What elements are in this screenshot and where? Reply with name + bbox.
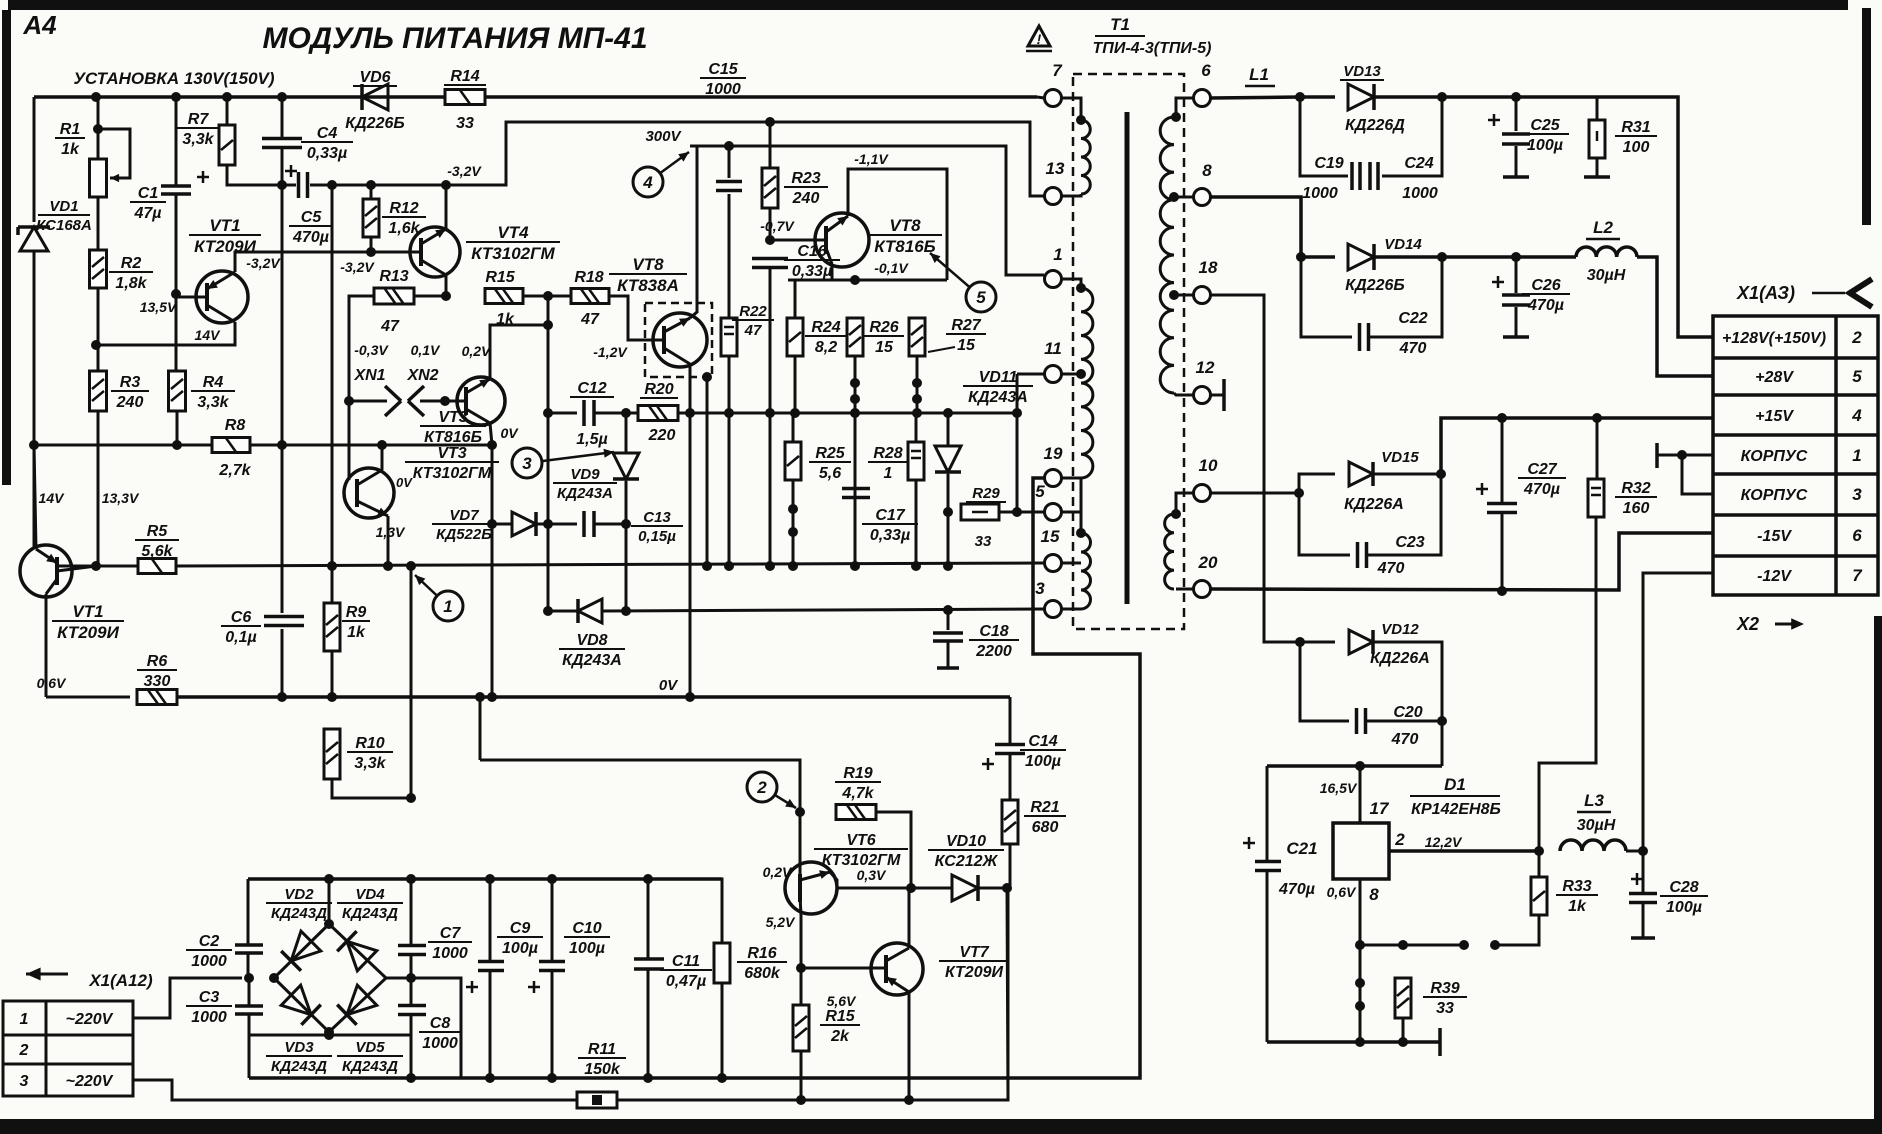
wire C4 to C5 row xyxy=(281,147,284,185)
wire C3 to bottom row xyxy=(248,1014,251,1035)
wire node row 945 xyxy=(1360,944,1464,947)
svg-text:3,3k: 3,3k xyxy=(354,755,386,772)
wire L2 to +28V xyxy=(1637,257,1713,376)
svg-text:15: 15 xyxy=(875,339,894,356)
svg-text:R9: R9 xyxy=(346,604,367,621)
svg-text:X1(АЗ): X1(АЗ) xyxy=(1736,283,1795,303)
svg-text:13,5V: 13,5V xyxy=(140,299,178,315)
junction VT3 emitter / 0V rail xyxy=(487,692,497,702)
junction 0V rail / VT8 emitter xyxy=(685,692,695,702)
wire node 1 column xyxy=(410,566,413,798)
svg-text:1,3V: 1,3V xyxy=(376,524,406,540)
wire R16 column xyxy=(648,879,722,944)
wire pin12 to winding xyxy=(1174,393,1193,395)
svg-text:КД243Д: КД243Д xyxy=(342,905,398,922)
junction VD15 / C23 xyxy=(1436,469,1446,479)
label C25 xyxy=(1521,117,1569,154)
test point circle 4 xyxy=(633,152,689,197)
svg-text:VD3: VD3 xyxy=(284,1039,314,1056)
capacitor C27 xyxy=(1487,504,1517,513)
svg-text:1: 1 xyxy=(1053,245,1062,264)
capacitor C3 xyxy=(235,1006,263,1014)
label R11 xyxy=(578,1041,626,1078)
svg-text:2: 2 xyxy=(1851,328,1862,347)
svg-text:R7: R7 xyxy=(188,111,210,128)
junction R16 / row A xyxy=(717,1073,727,1083)
wire R15-R18 xyxy=(523,295,571,298)
wire bridge top row xyxy=(248,877,722,881)
pointer line R27 xyxy=(928,347,955,352)
svg-text:0V: 0V xyxy=(396,475,413,490)
wire node2 rail xyxy=(480,760,800,812)
wire R31 bottom xyxy=(1596,158,1599,177)
svg-text:C7: C7 xyxy=(440,925,462,942)
mains arrow X1(A12) xyxy=(26,973,68,976)
svg-text:VD12: VD12 xyxy=(1381,621,1419,638)
junction C13 / VD9 column xyxy=(621,519,631,529)
label R16 xyxy=(737,945,787,982)
svg-text:C18: C18 xyxy=(979,623,1008,640)
wire C2C3 column to row A xyxy=(248,1035,251,1078)
wire L3 to -12V riser xyxy=(1626,573,1713,851)
capacitor C1 xyxy=(161,186,191,194)
wire node2 from 0V rail xyxy=(479,697,482,760)
resistor R25 xyxy=(785,442,801,480)
fuse link R11 row xyxy=(577,1092,617,1108)
svg-text:VD15: VD15 xyxy=(1381,449,1419,466)
capacitor C20 xyxy=(1357,708,1366,734)
wire C2 to mid row xyxy=(247,953,250,978)
svg-text:D1: D1 xyxy=(1444,775,1466,794)
svg-text:X2: X2 xyxy=(1736,614,1759,634)
junction C8 / row A xyxy=(406,1073,416,1083)
transformer winding 1-19 xyxy=(1081,288,1093,478)
junction pin2 row / R33 xyxy=(1534,846,1544,856)
wire mid row right xyxy=(386,978,461,1078)
label C7 xyxy=(428,925,472,962)
wire R33 top xyxy=(1538,851,1541,877)
wire C16 bottom xyxy=(769,267,772,413)
plus sign C5 xyxy=(285,170,297,173)
wire row B right xyxy=(616,888,1008,1100)
wire C15 to R22 xyxy=(728,194,731,319)
svg-text:C6: C6 xyxy=(231,609,252,626)
wire +15V rail xyxy=(1441,418,1713,474)
capacitor C4 xyxy=(262,139,302,148)
svg-text:R4: R4 xyxy=(203,374,224,391)
label C3 xyxy=(186,989,232,1026)
label VT3 КТ3102ГМ xyxy=(405,445,499,482)
label VT4 xyxy=(466,223,560,263)
wire 300V line xyxy=(690,146,1044,275)
resistor R15 (2k) xyxy=(793,1005,809,1051)
svg-text:КД226Д: КД226Д xyxy=(1345,117,1405,134)
resistor R20 xyxy=(638,406,678,421)
svg-text:18: 18 xyxy=(1199,258,1218,277)
svg-text:VD6: VD6 xyxy=(359,69,390,86)
wire C15 column top xyxy=(728,146,731,178)
wire R19 to VT6 collector row xyxy=(876,812,911,888)
wire left column to VT1 lower xyxy=(33,445,36,549)
wire R12 top xyxy=(370,185,373,199)
test point circle 3 xyxy=(512,448,614,478)
svg-text:КТ3102ГМ: КТ3102ГМ xyxy=(413,465,492,482)
capacitor C21 xyxy=(1255,862,1281,871)
diode VD13 xyxy=(1348,84,1374,110)
wire C17 column xyxy=(854,413,857,566)
junction node / D1 pin17 xyxy=(1355,761,1365,771)
svg-text:VT8: VT8 xyxy=(632,255,664,274)
label R7 xyxy=(176,111,220,148)
svg-text:0,6V: 0,6V xyxy=(37,675,67,691)
svg-text:3: 3 xyxy=(1852,485,1862,504)
wire C26 bottom xyxy=(1515,307,1518,337)
junction mid row / C7C8 xyxy=(406,973,416,983)
winding tap dot 18 xyxy=(1169,290,1179,300)
wire C1 column xyxy=(175,97,178,186)
wire VT6 emitter xyxy=(800,915,803,1005)
svg-text:C5: C5 xyxy=(301,209,323,226)
svg-text:X1(A12): X1(A12) xyxy=(88,971,153,990)
wire C2C3 column top xyxy=(247,879,250,945)
transformer pin 19 xyxy=(1044,444,1063,487)
svg-text:C9: C9 xyxy=(510,920,531,937)
label R1 xyxy=(55,121,85,158)
svg-text:УСТАНОВКА 130V(150V): УСТАНОВКА 130V(150V) xyxy=(73,69,274,88)
svg-text:КОРПУС: КОРПУС xyxy=(1741,448,1808,465)
wire R3 to base rail xyxy=(97,411,100,566)
svg-text:1000: 1000 xyxy=(1402,185,1438,202)
dot a on pin8 column xyxy=(1355,978,1365,988)
junction ground row / pin8 col xyxy=(1355,1037,1365,1047)
junction node 2 xyxy=(795,807,805,817)
svg-text:~220V: ~220V xyxy=(66,1011,114,1028)
svg-text:-0,7V: -0,7V xyxy=(760,218,795,234)
svg-text:VD11: VD11 xyxy=(979,369,1018,386)
transformer pin 10 xyxy=(1194,456,1218,502)
svg-text:1: 1 xyxy=(20,1011,29,1028)
wire pin18 output xyxy=(1211,295,1300,642)
svg-text:470µ: 470µ xyxy=(1527,297,1564,314)
junction VD11 / R29 row xyxy=(943,507,953,517)
wire pin1 to winding xyxy=(1061,279,1081,288)
svg-text:VD8: VD8 xyxy=(576,632,607,649)
wire R22 bottom xyxy=(728,356,731,566)
wire +16,5V node row xyxy=(1267,764,1442,768)
svg-text:КТ209И: КТ209И xyxy=(945,964,1004,981)
resistor R21 xyxy=(1002,800,1018,844)
svg-text:100: 100 xyxy=(1623,139,1650,156)
diode VD6 xyxy=(362,84,388,110)
svg-text:10: 10 xyxy=(1199,456,1218,475)
junction base rail / VT8 emitter2 xyxy=(702,561,712,571)
wire VT6 collector row 0,3V xyxy=(830,872,911,888)
svg-text:C13: C13 xyxy=(643,509,671,526)
svg-text:R24: R24 xyxy=(811,319,840,336)
junction near dashed box xyxy=(702,372,712,382)
svg-text:R21: R21 xyxy=(1030,799,1059,816)
wire VT8 collector xyxy=(690,146,697,318)
svg-text:4: 4 xyxy=(1851,406,1862,425)
svg-text:R11: R11 xyxy=(588,1041,616,1058)
wire pin19 to winding xyxy=(1061,477,1081,480)
junction base rail / C17 xyxy=(850,561,860,571)
svg-text:47: 47 xyxy=(580,311,600,328)
wire C10 bottom xyxy=(551,971,554,1078)
junction +15V / R32 xyxy=(1592,413,1602,423)
resistor R3 xyxy=(90,371,107,411)
wire 0V rail xyxy=(46,696,130,699)
svg-text:R14: R14 xyxy=(450,68,479,85)
svg-text:470: 470 xyxy=(1399,340,1427,357)
wire VD15 anode up xyxy=(1299,474,1335,493)
svg-text:C20: C20 xyxy=(1393,704,1422,721)
svg-text:17: 17 xyxy=(1370,799,1390,818)
svg-text:1,5µ: 1,5µ xyxy=(576,431,607,448)
transistor VT3 КТ3102ГМ (lower) xyxy=(344,468,394,518)
connector X1(A3) table xyxy=(1713,316,1878,595)
diode VD8 xyxy=(578,599,602,623)
winding start dot 7 xyxy=(1076,115,1086,125)
svg-text:1k: 1k xyxy=(347,624,366,641)
junction R20 row / VD11 xyxy=(943,408,953,418)
svg-text:1000: 1000 xyxy=(422,1035,458,1052)
resistor R1 (trimmer) xyxy=(90,159,107,197)
wire C9 bottom xyxy=(489,971,492,1078)
wire pin11 stub xyxy=(1017,373,1044,376)
wire VD7 row xyxy=(492,523,512,526)
svg-text:1: 1 xyxy=(1852,446,1861,465)
resistor R15 xyxy=(485,289,523,304)
svg-text:VD7: VD7 xyxy=(449,507,479,524)
svg-text:R28: R28 xyxy=(873,445,902,462)
wire VT7 base row xyxy=(801,967,886,970)
wire bridge edge VD5 xyxy=(329,978,386,1032)
svg-text:-1,2V: -1,2V xyxy=(593,344,628,360)
wire C23 right xyxy=(1368,474,1441,555)
svg-text:3,3k: 3,3k xyxy=(182,131,214,148)
wire VT8-816 emitter xyxy=(831,264,834,280)
label R19 xyxy=(835,765,881,802)
svg-text:12,2V: 12,2V xyxy=(1425,834,1463,850)
svg-text:T1: T1 xyxy=(1110,15,1130,34)
resistor R19 xyxy=(836,805,876,820)
junction R29 right / pin11 branch xyxy=(1012,507,1022,517)
wire R1 column top xyxy=(97,97,100,160)
wire link to R33 xyxy=(1495,915,1539,945)
resistor R22 xyxy=(721,318,737,356)
svg-text:VD10: VD10 xyxy=(946,833,986,850)
wire pin15 tap xyxy=(1061,562,1081,565)
test point circle 2 xyxy=(747,772,796,808)
label VD9 xyxy=(553,466,617,502)
svg-text:C23: C23 xyxy=(1395,534,1424,551)
wire C12-R20 xyxy=(594,412,638,415)
svg-text:R13: R13 xyxy=(379,268,408,285)
svg-text:VT7: VT7 xyxy=(959,944,989,961)
svg-text:R39: R39 xyxy=(1430,980,1459,997)
svg-text:30µH: 30µH xyxy=(1587,267,1626,284)
junction top row / C11 xyxy=(643,874,653,884)
resistor R24 xyxy=(787,318,803,356)
wire VD13 cathode rail xyxy=(1374,97,1713,337)
svg-text:-0,1V: -0,1V xyxy=(874,260,909,276)
junction VD13 anode / C19 xyxy=(1295,92,1305,102)
svg-text:5,6k: 5,6k xyxy=(141,543,173,560)
capacitor C13 xyxy=(584,511,594,537)
svg-text:ТПИ-4-3(ТПИ-5): ТПИ-4-3(ТПИ-5) xyxy=(1093,40,1212,57)
resistor R26 xyxy=(847,318,863,356)
svg-text:470µ: 470µ xyxy=(1278,881,1315,898)
svg-text:L3: L3 xyxy=(1584,791,1604,810)
bridge diode VD5 xyxy=(337,985,377,1025)
label C8 xyxy=(419,1015,461,1052)
junction VD12 / C20 right xyxy=(1437,716,1447,726)
junction base rail / R3 xyxy=(91,561,101,571)
wire VT8 emitter xyxy=(689,364,692,697)
svg-text:680: 680 xyxy=(1032,819,1059,836)
wire pin11 branch xyxy=(1016,374,1019,512)
svg-text:КД243А: КД243А xyxy=(562,652,622,669)
junction VD14 / C22 right xyxy=(1437,252,1447,262)
svg-text:R26: R26 xyxy=(869,319,898,336)
transformer pin 18 xyxy=(1194,258,1218,304)
svg-text:470µ: 470µ xyxy=(292,229,329,246)
wire bridge edge VD2 xyxy=(274,924,329,978)
resistor R29 xyxy=(961,504,999,520)
junction VT6 emitter / VT7 base xyxy=(796,963,806,973)
wire C16 column to base rail xyxy=(769,413,772,566)
label C15 xyxy=(700,61,746,98)
transistor VT6 КТ3102ГМ xyxy=(785,862,837,915)
svg-text:3: 3 xyxy=(20,1073,29,1090)
svg-text:300V: 300V xyxy=(645,128,682,145)
label VD5 xyxy=(337,1039,403,1075)
label C1 xyxy=(130,185,166,222)
wire pin20 to winding xyxy=(1176,588,1193,591)
svg-text:VT8: VT8 xyxy=(889,216,921,235)
svg-text:C25: C25 xyxy=(1530,117,1560,134)
label R27 xyxy=(946,317,986,354)
wire bridge bottom row xyxy=(249,1034,411,1037)
plus sign C27 xyxy=(1476,488,1488,491)
svg-text:33: 33 xyxy=(975,533,992,550)
svg-text:5,6: 5,6 xyxy=(819,465,841,482)
wire C21 column xyxy=(1266,766,1269,861)
svg-text:14V: 14V xyxy=(195,327,222,343)
svg-text:VT3: VT3 xyxy=(438,409,467,426)
junction bottom row / bridge xyxy=(324,1030,334,1040)
winding tap dot 8 xyxy=(1169,192,1179,202)
wire C5 row to VT4 xyxy=(310,184,446,187)
svg-text:R25: R25 xyxy=(815,445,845,462)
wire VD12 cathode xyxy=(1373,642,1442,766)
wire C14 to R21 xyxy=(1009,754,1012,800)
junction VT8 emitter / R20 row xyxy=(685,408,695,418)
svg-text:-1,1V: -1,1V xyxy=(854,151,889,167)
wire 0V rail right xyxy=(177,695,1010,699)
label C5 xyxy=(289,209,333,246)
bridge diode VD4 xyxy=(337,931,377,971)
plus sign C10 xyxy=(528,986,540,989)
label C17 xyxy=(862,507,918,544)
label C27 xyxy=(1518,461,1566,498)
junction +15V / C27 xyxy=(1497,413,1507,423)
svg-text:5: 5 xyxy=(1852,367,1862,386)
ground bar pin12 xyxy=(1222,379,1226,411)
svg-text:15: 15 xyxy=(1041,527,1060,546)
ground bar right xyxy=(1438,1028,1442,1056)
svg-text:R22: R22 xyxy=(739,303,767,320)
svg-text:7: 7 xyxy=(1852,566,1863,585)
svg-text:КТ816Б: КТ816Б xyxy=(424,429,482,446)
svg-text:47: 47 xyxy=(380,318,400,335)
svg-text:240: 240 xyxy=(792,190,820,207)
wire left column below VD1 xyxy=(33,251,36,445)
svg-text:!: ! xyxy=(1037,31,1042,47)
junction VD13 / C24 xyxy=(1437,92,1447,102)
svg-text:R6: R6 xyxy=(147,653,168,670)
svg-text:C12: C12 xyxy=(577,380,606,397)
svg-text:КД243Д: КД243Д xyxy=(271,905,327,922)
svg-text:150k: 150k xyxy=(584,1061,621,1078)
svg-text:5: 5 xyxy=(1035,482,1045,501)
wire VD9 column xyxy=(625,413,628,452)
svg-text:КД243А: КД243А xyxy=(968,389,1028,406)
wire -0,1V row xyxy=(788,279,947,282)
junction / C26 xyxy=(1511,252,1521,262)
resistor R13 xyxy=(374,288,414,304)
label C2 xyxy=(186,933,232,970)
transformer pin 15 xyxy=(1041,527,1062,572)
wire to VD14 xyxy=(1301,255,1335,259)
wire C9 column xyxy=(489,879,492,962)
wire C27 bottom xyxy=(1501,513,1504,591)
svg-text:240: 240 xyxy=(116,394,144,411)
transformer winding 7-13 xyxy=(1081,120,1090,194)
svg-text:C4: C4 xyxy=(317,125,338,142)
wire pin3 to winding xyxy=(1061,608,1081,611)
wire R8 row xyxy=(34,444,212,447)
svg-text:R18: R18 xyxy=(574,269,603,286)
winding start dot 6 xyxy=(1171,112,1181,122)
wire 0V rail to C14 xyxy=(1009,697,1012,744)
transformer winding 5-3 xyxy=(1081,533,1091,609)
junction top rail / R1 column xyxy=(91,92,101,102)
svg-text:+15V: +15V xyxy=(1755,408,1794,425)
label VD4 xyxy=(337,886,403,922)
svg-text:VT1: VT1 xyxy=(209,216,240,235)
label R39 xyxy=(1423,980,1467,1017)
junction C16 / R20 row xyxy=(765,408,775,418)
svg-text:КД226Б: КД226Б xyxy=(1345,277,1404,294)
junction R9 / 0V rail xyxy=(327,692,337,702)
svg-text:5: 5 xyxy=(976,288,986,307)
junction C12 column / R20 row xyxy=(543,408,553,418)
wire VT3 collector xyxy=(490,325,548,379)
plus sign C26 xyxy=(1492,281,1504,284)
test point circle 5 xyxy=(930,253,996,312)
wire R13 right xyxy=(413,295,446,298)
svg-text:C11: C11 xyxy=(672,953,700,970)
junction VD14 anode / C22 xyxy=(1296,252,1306,262)
capacitor C8 xyxy=(398,1006,426,1015)
svg-text:VD9: VD9 xyxy=(570,466,600,483)
wire VT3 lower collector xyxy=(381,445,384,470)
wire D1 pin2 row xyxy=(1389,849,1539,853)
label VT1 lower xyxy=(52,602,124,642)
junction R15-R18 / C12 column xyxy=(543,291,553,301)
